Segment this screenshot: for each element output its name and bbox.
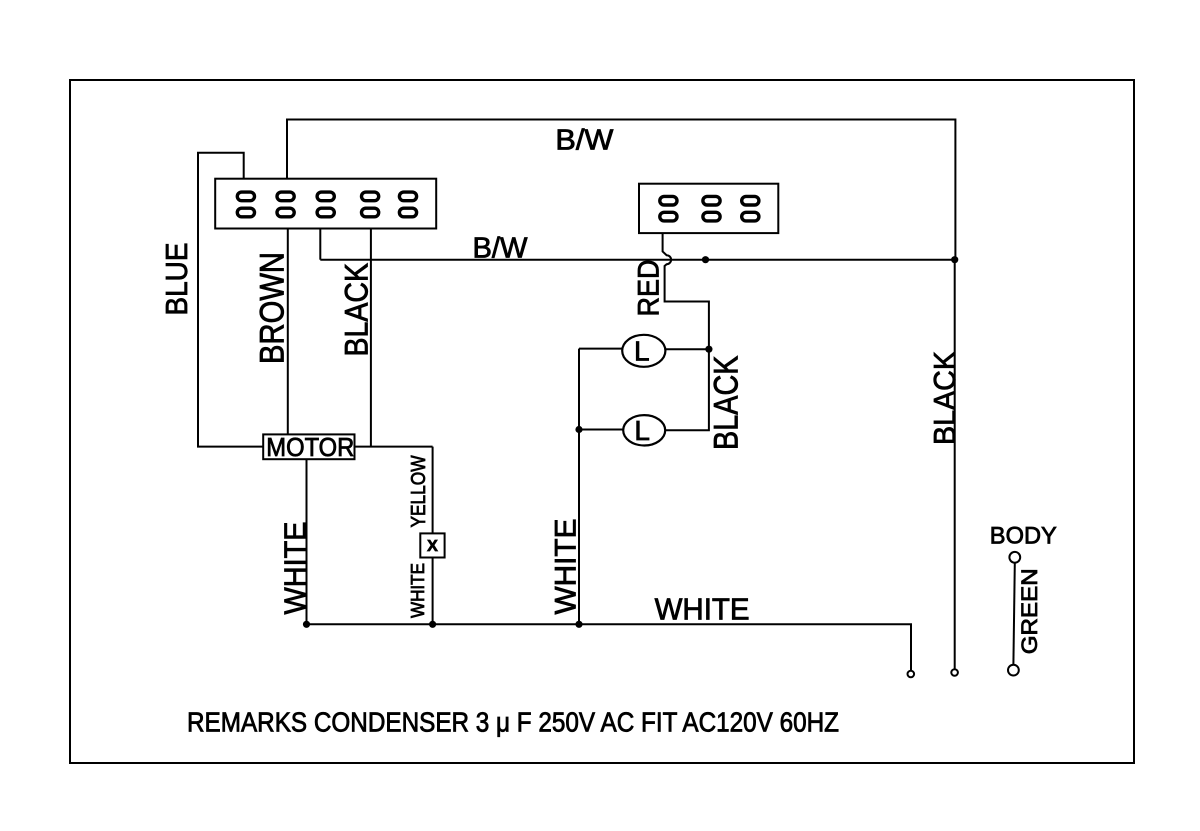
terminal WHITE open circle [908,671,915,678]
junction dot bottom middle [429,621,436,628]
wire BLUE run (TB1 step to MOTOR left) [198,153,263,447]
wire lamp2 left lead [579,429,623,431]
TB1 pin pair 3 [317,192,334,217]
junction dot B/W mid right [951,256,958,263]
wire condenser to bottom [432,558,434,625]
TB1 pin pair 4 [362,192,379,217]
terminal BODY open circle [1009,552,1020,563]
svg-text:X: X [427,538,438,555]
lamp L1 [622,335,665,367]
wire lamp chain vertical with lamp2 right lead [665,349,709,430]
svg-text:BLACK: BLACK [338,263,374,357]
svg-text:REMARKS CONDENSER 3 μ F 250V A: REMARKS CONDENSER 3 μ F 250V AC FIT AC12… [187,707,839,738]
svg-text:L: L [634,415,650,446]
svg-text:RED: RED [633,260,666,317]
svg-text:BLACK: BLACK [927,351,962,445]
terminal BLACK open circle [951,669,958,676]
lamp L2 [623,415,665,446]
wire B/W mid horizontal [320,259,954,261]
wire BODY to GREEN terminal [1013,563,1014,664]
TB2 pin pair 3 [742,196,759,221]
svg-text:YELLOW: YELLOW [407,455,430,528]
svg-text:WHITE: WHITE [655,593,750,627]
junction dot lamp1 right [705,346,712,353]
svg-text:B/W: B/W [473,233,529,265]
svg-text:WHITE: WHITE [550,519,583,615]
wire B/W top run [287,120,955,260]
condenser X [420,533,444,557]
wire lamp1 right lead [665,348,709,350]
wire WHITE below MOTOR [306,459,308,624]
wire stub TB1 to B/W mid [319,229,321,260]
TB2 pin pair 2 [703,196,720,221]
connector block TB2 [639,184,778,233]
wire BLACK left (TB1 down) [370,229,372,447]
svg-text:WHITE: WHITE [407,563,428,618]
TB1 pin pair 5 [399,192,416,217]
wire YELLOW vertical to condenser [432,447,434,534]
svg-text:BLUE: BLUE [159,243,194,316]
junction dot bottom left [303,621,310,628]
svg-text:L: L [634,336,650,367]
wire BROWN (TB1 to MOTOR) [287,229,289,435]
junction dot lamp2 left [575,426,582,433]
junction dot bottom lamp branch [575,621,582,628]
TB1 pin pair 1 [237,192,254,217]
svg-text:BLACK: BLACK [707,355,745,450]
svg-text:B/W: B/W [555,124,614,156]
TB2 pin pair 1 [660,196,677,221]
svg-text:BODY: BODY [990,523,1057,550]
wire WHITE left vertical [578,349,580,625]
wire MOTOR right horizontal [355,446,433,448]
terminal GREEN open circle [1008,665,1019,676]
svg-text:MOTOR: MOTOR [266,434,354,462]
connector block TB1 [215,179,436,229]
wire RED (TB2 down with hop over B/W) [663,233,709,349]
wire WHITE bottom run [307,624,912,670]
svg-text:BROWN: BROWN [254,252,292,364]
wire lamp1 left lead [579,348,622,350]
motor M [263,434,354,462]
svg-text:GREEN: GREEN [1017,568,1042,654]
TB1 pin pair 2 [277,192,294,217]
svg-text:WHITE: WHITE [278,522,313,615]
wire BLACK right vertical [954,260,956,669]
junction dot B/W mid left [702,256,709,263]
